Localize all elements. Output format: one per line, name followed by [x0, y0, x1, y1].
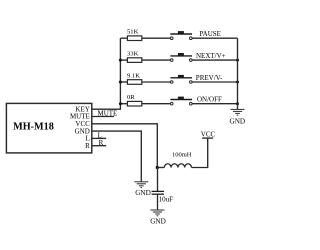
- ground right bus: [230, 109, 246, 125]
- svg-text:10uF: 10uF: [159, 195, 174, 203]
- svg-text:GND: GND: [150, 218, 166, 226]
- svg-text:R: R: [99, 139, 104, 147]
- switch SW4 ON/OFF: [170, 96, 222, 105]
- wire node to capacitor: [157, 168, 159, 192]
- resistor R3 9.1K: [127, 72, 142, 84]
- wire node to inductor: [157, 167, 164, 169]
- ground module GND pin: [134, 182, 150, 197]
- resistor R2 33K: [127, 51, 142, 63]
- junction node VCC-L1-C1: [156, 166, 159, 169]
- svg-text:NEXT/V+: NEXT/V+: [196, 52, 226, 60]
- wire row2 bus to R2: [120, 59, 127, 61]
- wire SW2 to right bus: [192, 59, 237, 61]
- junction right bus row4: [236, 102, 239, 105]
- wire capacitor to ground: [157, 194, 159, 210]
- switch SW3 PREV/V-: [170, 74, 223, 83]
- ground capacitor: [150, 210, 166, 226]
- wire SW4 to right bus: [192, 103, 237, 105]
- svg-text:33K: 33K: [127, 51, 139, 58]
- svg-text:MH-M18: MH-M18: [13, 121, 54, 132]
- capacitor C1 10uF: [152, 191, 174, 203]
- resistor R1 51K: [127, 29, 142, 41]
- junction left bus row3: [119, 81, 122, 84]
- wire R stub: [92, 145, 106, 147]
- svg-text:MUTE: MUTE: [98, 110, 118, 118]
- junction right bus row3: [236, 81, 239, 84]
- wire right bus vertical: [237, 38, 239, 109]
- svg-text:0R: 0R: [127, 94, 135, 101]
- wire row4 bus to R4: [120, 103, 127, 105]
- svg-text:GND: GND: [230, 117, 246, 125]
- svg-text:ON/OFF: ON/OFF: [197, 96, 222, 104]
- junction right bus row2: [236, 59, 239, 62]
- svg-text:9.1K: 9.1K: [127, 72, 140, 79]
- wire VCC pin to node: [92, 124, 158, 168]
- wire MUTE stub: [92, 116, 114, 118]
- wire SW1 to right bus: [192, 37, 237, 39]
- switch SW2 NEXT/V+: [170, 52, 225, 61]
- wire SW3 to right bus: [192, 81, 237, 83]
- junction left bus row2: [119, 59, 122, 62]
- inductor L1 100mH: [164, 152, 192, 168]
- svg-text:PREV/V-: PREV/V-: [196, 74, 223, 82]
- wire KEY pin to left bus: [92, 38, 121, 109]
- wire R3 to SW3: [142, 81, 171, 83]
- svg-text:100mH: 100mH: [172, 152, 192, 159]
- wire R2 to SW2: [142, 59, 171, 61]
- svg-text:GND: GND: [135, 189, 151, 197]
- switch SW1 PAUSE: [170, 30, 221, 40]
- resistor R4 0R: [127, 94, 142, 106]
- wire R1 to SW1: [142, 37, 171, 39]
- power VCC: [201, 130, 216, 138]
- wire row3 bus to R3: [120, 81, 127, 83]
- svg-text:R: R: [85, 142, 90, 150]
- svg-text:51K: 51K: [127, 29, 139, 36]
- wire R4 to SW4: [142, 103, 171, 105]
- wire L stub: [92, 137, 106, 139]
- svg-text:VCC: VCC: [201, 130, 216, 138]
- wire GND pin down to ground: [92, 131, 142, 181]
- wire inductor to VCC: [192, 138, 208, 167]
- junction left bus row4: [119, 102, 122, 105]
- wire row1 bus to R1: [120, 37, 127, 39]
- svg-text:PAUSE: PAUSE: [199, 30, 221, 38]
- module U1 MH-M18 box: [6, 103, 91, 152]
